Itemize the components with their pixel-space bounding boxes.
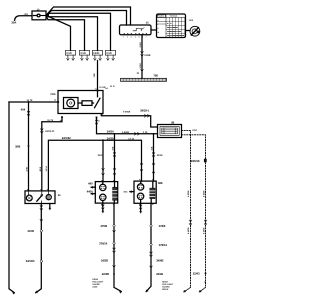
connector chevrons on relay output: [95, 120, 98, 125]
label 11 76 lower: [47, 119, 54, 122]
label 88: [171, 121, 174, 125]
arrowhead switch contact: [40, 195, 42, 197]
bulb left top: [100, 184, 106, 190]
connector 34/13/3: [40, 260, 42, 262]
wire to right lamp element: [151, 134, 153, 204]
svg-text:+15: +15: [24, 13, 29, 16]
label 4SB rotated right: [150, 146, 153, 150]
svg-text:34/2B: 34/2B: [101, 259, 108, 263]
svg-text:15R: 15R: [93, 73, 96, 77]
label 2/45/18: [191, 159, 200, 163]
label 34/18 left: [98, 154, 104, 157]
node junction on 11 76: [28, 101, 30, 103]
connector chevrons on ground wire: [141, 52, 144, 57]
connector 378/14: [150, 243, 152, 245]
svg-text:14 14: 14 14: [128, 137, 134, 140]
connector chevrons 24/13: [41, 129, 44, 134]
wire battery feed to fuse box: [15, 16, 33, 21]
wire w1 to relay pin: [46, 7, 131, 25]
label 31SB rotated upper: [139, 42, 142, 48]
label 31G under bus bar: [110, 85, 115, 88]
label 11/4: [189, 19, 194, 22]
fuse C3: [92, 51, 102, 61]
label 4400: [87, 190, 93, 194]
wire dashed sensor output 2: [182, 135, 206, 288]
connector chevrons lower on ground wire: [141, 70, 144, 72]
svg-text:86: 86: [54, 99, 56, 102]
svg-text:4.0R: 4.0R: [25, 167, 28, 172]
label 22/4B: [102, 272, 109, 276]
svg-text:1: 1: [123, 35, 124, 38]
label 40R rotated: [25, 167, 28, 172]
connector chevrons left ground: [113, 231, 116, 268]
svg-text:3: 3: [131, 35, 132, 38]
wire w3 to fuse C4: [46, 13, 111, 50]
lamp assembly left 440: [95, 182, 117, 204]
connector chevrons ground stub: [102, 205, 105, 210]
node junction left ground: [113, 273, 115, 275]
label 376/14: [99, 242, 108, 246]
label 14 14: [128, 137, 134, 140]
svg-text:31SB: 31SB: [139, 42, 142, 48]
switch resistor circle: [46, 195, 51, 200]
lamp assembly right 688: [134, 181, 156, 203]
wire left edge down run: [9, 102, 14, 293]
wire relay U25 pin to ground bus: [141, 35, 143, 79]
arrowhead switch ground: [35, 291, 37, 293]
label 376/8: [100, 224, 107, 228]
svg-text:4-6008: 4-6008: [122, 131, 130, 134]
relay U25 bottom pins: [124, 33, 147, 34]
svg-text:376/8: 376/8: [100, 224, 107, 228]
label 24/34: [107, 130, 114, 134]
label 4R rotated: [204, 280, 207, 283]
svg-text:4-6008: 4-6008: [202, 190, 205, 197]
connector 376/8: [113, 225, 115, 227]
svg-text:2: 2: [127, 35, 128, 38]
svg-text:35C: 35C: [123, 190, 127, 193]
label A4: [105, 87, 108, 90]
connector chevrons left element wire: [113, 153, 116, 158]
label 24/13/2: [62, 136, 71, 140]
wire to left lamp element: [113, 134, 115, 203]
label 4-6008 rotated right dashed: [202, 227, 205, 234]
wire right lamp main ground run: [146, 203, 151, 291]
label 22/48: [156, 272, 163, 276]
label 4-6008 upper: [123, 111, 131, 114]
relay U25 fog light relay: [120, 25, 152, 35]
label 2 18: [192, 129, 197, 132]
fuse C2: [79, 51, 89, 61]
svg-text:4R/B: 4R/B: [39, 166, 42, 171]
svg-text:2/45/18: 2/45/18: [191, 159, 200, 163]
element left lamp: [113, 187, 117, 200]
svg-text:4-6008: 4-6008: [187, 190, 190, 197]
label 3/98: [15, 144, 21, 148]
connector chevrons lamp feeds lower: [102, 164, 155, 176]
arrowhead switch stub: [49, 208, 51, 210]
relay K fog relay box: [58, 91, 103, 114]
node branch right element feed: [153, 133, 155, 135]
svg-text:C4/21: C4/21: [93, 52, 100, 55]
svg-text:34/4B: 34/4B: [156, 259, 163, 263]
label 36: [58, 194, 61, 197]
svg-text:378/14: 378/14: [159, 243, 168, 247]
arrowhead left edge wire: [12, 292, 14, 294]
node branch left bulb feed: [102, 139, 104, 141]
svg-text:C1/8: C1/8: [80, 52, 86, 55]
element right lamp: [150, 188, 155, 199]
switch bulb symbol: [26, 195, 32, 201]
connector chevrons right element wire: [152, 153, 155, 158]
text block right rear fog: [162, 280, 174, 291]
bulb left bottom: [100, 194, 106, 200]
label 2/26: [50, 93, 56, 96]
svg-text:14 14: 14 14: [45, 165, 48, 171]
svg-text:34/18: 34/18: [98, 154, 104, 157]
fuse box S1: [32, 11, 46, 20]
relay K contact: [95, 91, 101, 108]
svg-text:24/34: 24/34: [107, 130, 114, 134]
pin marks switch box: [27, 189, 48, 191]
label 34/4B: [156, 259, 163, 263]
wire stub right lamp: [130, 191, 134, 193]
arrowhead stub right lamp: [130, 191, 132, 193]
svg-text:4-6008: 4-6008: [187, 227, 190, 234]
fog switch box 36: [25, 191, 55, 204]
svg-text:24/13-F1: 24/13-F1: [45, 130, 55, 133]
wire w5 to fuse C2: [46, 15, 85, 50]
label 22/43: [193, 272, 200, 276]
wire right lamp ground stub: [140, 203, 142, 211]
node fan-out point: [46, 14, 48, 17]
svg-text:378/8: 378/8: [159, 224, 166, 228]
wire w6 to fuse C1: [46, 15, 71, 50]
node junction 22/43: [205, 272, 207, 274]
label 14 14 rotated: [45, 165, 48, 171]
wire lamp feed horizontal 24/38: [48, 140, 141, 203]
connector 376/14: [113, 242, 115, 244]
svg-text:24/29-1: 24/29-1: [140, 109, 149, 113]
svg-text:22/43: 22/43: [193, 272, 200, 276]
svg-text:31/3B: 31/3B: [144, 54, 150, 57]
node junction 3/98: [28, 145, 30, 147]
svg-text:87: 87: [98, 120, 100, 123]
svg-text:4-6008: 4-6008: [202, 227, 205, 234]
wire relay K output to sensor 24/34: [97, 118, 158, 134]
svg-text:5: 5: [139, 35, 140, 38]
label 34/18 right: [157, 154, 163, 157]
svg-text:C1/8: C1/8: [106, 52, 112, 55]
svg-text:11 76: 11 76: [27, 99, 34, 102]
svg-text:24/13/2: 24/13/2: [62, 136, 71, 140]
arrowhead left main ground: [119, 291, 121, 293]
label 11 GR: [99, 86, 106, 89]
svg-text:11 76: 11 76: [47, 119, 54, 122]
label 24/29-1: [140, 109, 149, 113]
svg-text:3/98: 3/98: [15, 144, 21, 148]
node 30A battery terminal label: [11, 20, 17, 24]
node branch left element feed: [114, 133, 116, 135]
wire branch to switch lamp bulb: [28, 102, 30, 191]
ground bus bar G: [121, 78, 167, 81]
sensor element grid: [160, 127, 179, 136]
pin marks left lamp: [102, 180, 115, 204]
arrowhead right ground stub: [140, 211, 142, 213]
label 35C: [123, 190, 127, 193]
connector chevrons dashed 1: [189, 220, 192, 226]
wire w4 to fuse C3: [46, 15, 98, 50]
ignition switch SW: [190, 26, 200, 36]
svg-text:786: 786: [153, 74, 158, 78]
label 688: [158, 181, 163, 185]
fuse C1: [65, 51, 75, 61]
label 10 on fuse box: [37, 9, 40, 12]
svg-text:DRIVE: DRIVE: [162, 288, 169, 291]
arrowhead dashed 1: [184, 290, 186, 292]
label 24/13-F1: [45, 130, 55, 133]
label +15 on feed wire: [24, 13, 29, 16]
connector 378/8: [150, 225, 152, 227]
svg-text:2 18: 2 18: [192, 129, 197, 132]
label 4SB rotated left: [111, 146, 114, 150]
wire switch ground run: [36, 204, 42, 293]
label 34/2B: [101, 259, 108, 263]
switch internal stubs: [29, 191, 49, 204]
svg-text:22/48: 22/48: [156, 272, 163, 276]
label 4R/B rotated: [39, 166, 42, 171]
label 4 15: [143, 131, 148, 134]
text block left rear fog: [92, 278, 104, 289]
svg-text:4 15: 4 15: [143, 131, 148, 134]
bulb right top: [137, 184, 143, 190]
connector chevrons right ground: [150, 252, 153, 268]
svg-text:4SB: 4SB: [111, 146, 114, 150]
wire stub left lamp pin a: [91, 186, 95, 188]
label 404: [21, 107, 26, 111]
svg-text:2/26: 2/26: [50, 93, 56, 96]
wire fuse C3 output to relay K: [97, 61, 99, 91]
svg-text:440: 440: [88, 182, 93, 186]
svg-text:C1/8: C1/8: [66, 52, 72, 55]
fuse C4: [105, 51, 115, 61]
label 31/90: [27, 229, 34, 233]
svg-text:0: 0: [158, 19, 159, 22]
wire chevrons on side output: [145, 115, 150, 118]
svg-text:688: 688: [158, 181, 163, 185]
relay K pin squares: [57, 90, 102, 119]
svg-text:4-6008: 4-6008: [123, 111, 131, 114]
bulb right bottom: [137, 193, 143, 199]
wire left lamp ground stub: [102, 203, 104, 211]
wire 11 76 horizontal feed: [9, 101, 58, 103]
label 31: [137, 72, 140, 75]
svg-text:31/90: 31/90: [27, 229, 34, 233]
wire w2 to relay pin: [46, 11, 127, 26]
arrowhead ground stub: [102, 211, 104, 213]
svg-text:31 G: 31 G: [110, 85, 115, 88]
wire dashed sensor output 1: [182, 130, 191, 287]
label 786: [153, 74, 158, 78]
wire chevrons right on 24/34: [135, 133, 140, 136]
label 34/13/3: [26, 259, 35, 263]
connector chevrons dashed 2: [204, 220, 207, 226]
bulb failure sensor 88: [158, 125, 182, 138]
wire dashed 2 exit slant: [200, 288, 206, 292]
label 440: [88, 182, 93, 186]
wire table to ignition switch: [186, 30, 190, 32]
label 25: [146, 21, 149, 24]
svg-text:34/13/3: 34/13/3: [26, 259, 35, 263]
label 4-6008 rotated dashed upper pair: [187, 190, 206, 197]
pin numbers relay K: [54, 87, 100, 122]
label 15R rotated: [93, 73, 96, 77]
connector 31/90: [40, 230, 42, 232]
relay U25 internal contact: [133, 28, 144, 31]
wire to left lamp bulbs: [102, 140, 104, 203]
wire relay K side output to sensor top: [102, 116, 158, 127]
pin marks right lamp: [139, 180, 153, 205]
label 31SB rotated lower: [139, 63, 142, 69]
label 31/3B: [144, 54, 150, 57]
label 378/8: [159, 224, 166, 228]
wire left lamp main ground run: [114, 203, 121, 291]
svg-text:34/18: 34/18: [157, 154, 163, 157]
wire switch stub: [49, 204, 51, 209]
wire dashed 1 exit slant: [184, 288, 191, 292]
svg-text:Position: Position: [157, 15, 164, 18]
fuse element inside S1: [34, 15, 37, 17]
arrowhead stub b: [91, 193, 93, 195]
svg-text:7: 7: [146, 35, 147, 38]
svg-text:4R: 4R: [204, 280, 207, 283]
connector chevrons right ground stub: [139, 205, 142, 210]
pin square on dashed 2: [204, 159, 207, 163]
svg-text:21/26: 21/26: [92, 286, 98, 289]
svg-text:4: 4: [135, 35, 136, 38]
connector chevrons switch ground: [40, 206, 43, 222]
wire stub left lamp pin b: [91, 193, 95, 195]
svg-text:376/14: 376/14: [99, 242, 108, 246]
svg-text:22/4B: 22/4B: [102, 272, 109, 276]
label 24/38: [107, 136, 114, 140]
svg-text:404: 404: [21, 107, 26, 111]
wire relay K output to switch box: [42, 118, 62, 191]
label 11 76 upper: [27, 99, 34, 102]
ignition switch table: [157, 14, 186, 38]
label 4-6008 rotated left dashed: [187, 227, 190, 234]
pin numbers relay U25: [123, 35, 146, 38]
svg-text:24/38: 24/38: [107, 136, 114, 140]
svg-text:31SB: 31SB: [139, 63, 142, 69]
arrowhead dashed 2: [199, 290, 201, 292]
connector chevrons on branch: [27, 111, 30, 116]
wire relay U25 to ignition table: [151, 29, 157, 31]
label 4-6008 lower: [122, 131, 130, 134]
svg-text:4SB: 4SB: [150, 146, 153, 150]
switch arrow contact: [37, 195, 43, 201]
arrowhead stub a: [91, 186, 93, 188]
arrowhead right main ground: [146, 290, 148, 292]
relay K coil symbol: [64, 98, 94, 109]
label 378/14: [159, 243, 168, 247]
svg-text:30: 30: [95, 87, 97, 90]
svg-text:Terminal: Terminal: [170, 15, 178, 18]
